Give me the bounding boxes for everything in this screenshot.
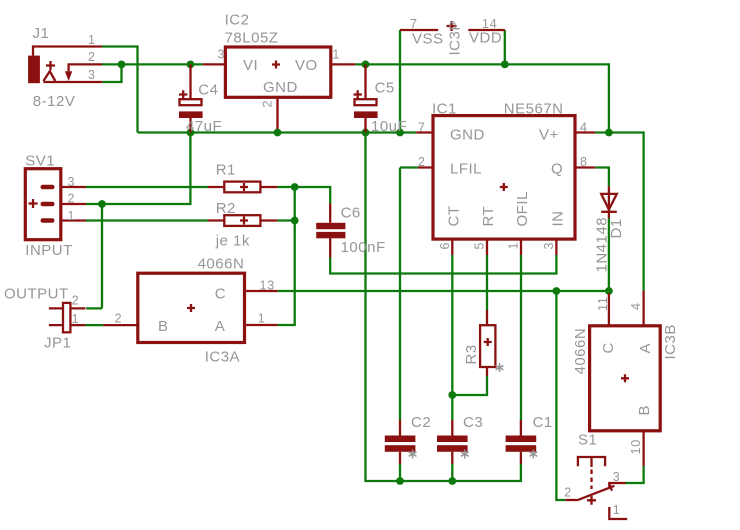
wire SV1.3 to R1 [86,186,208,188]
wire V+ of IC1 to IC3B pin4 [595,133,643,291]
power symbol IC3P VDD pin 14 [468,29,505,31]
junction node V+ [605,129,613,137]
svg-text:IC2: IC2 [225,12,250,29]
wire R1 right to C6 top [277,187,330,204]
wire GND rail y=132.5 [138,131,417,133]
junction node J1.2/J1.3 [118,61,126,69]
svg-text:C4: C4 [198,82,218,99]
svg-text:IC3B: IC3B [662,324,679,359]
wire net J1.3 up to J1.2 [102,64,121,82]
value star of C1 [529,450,537,459]
svg-text:R1: R1 [216,162,236,179]
connector SV1 [25,169,86,240]
junction node VDD [501,61,509,69]
svg-text:S1: S1 [578,432,597,449]
junction node D1/IC3B pin11 [605,287,613,295]
svg-text:4: 4 [580,121,588,135]
wire net VIN+ J1.1 down to GND rail [102,47,138,133]
svg-text:2: 2 [115,312,123,326]
power symbol IC3P VSS pin 7 [400,29,438,31]
wire Q pin to D1 anode [595,168,609,187]
svg-text:IC1: IC1 [432,101,457,118]
svg-text:LFIL: LFIL [450,161,482,178]
junction node VSS on rail [396,129,404,137]
svg-text:IC3A: IC3A [205,349,240,366]
wire RT down to R3 [486,255,488,310]
wire OFIL down to C1 [520,255,522,420]
wire SV1.1 to R2 [86,219,208,221]
wire LFIL pin left [400,166,418,168]
svg-text:IN: IN [549,211,566,227]
svg-text:1: 1 [332,48,340,62]
wire SV1.2 right and up to GND rail [86,133,190,205]
svg-text:C3: C3 [463,414,483,431]
svg-text:2: 2 [72,294,80,308]
wire net J1.2 to IC2 VI [102,63,203,65]
svg-text:GND: GND [263,79,298,96]
svg-text:OFIL: OFIL [514,191,531,226]
svg-text:B: B [158,318,169,335]
svg-text:C: C [215,286,226,303]
svg-text:3: 3 [218,48,226,62]
junction node SV1.2/JP1.2 [98,200,106,208]
svg-text:C1: C1 [533,414,553,431]
svg-text:C6: C6 [341,205,361,222]
svg-text:B: B [636,405,653,416]
svg-text:INPUT: INPUT [25,242,73,259]
wire S1 pin3 to IC3B pin10 [626,466,644,483]
svg-text:6: 6 [438,242,452,250]
switch S1 [565,457,627,519]
wire C3 bottom to rail [451,464,453,481]
svg-text:C: C [600,342,617,353]
svg-text:C5: C5 [375,80,395,97]
svg-text:J1: J1 [33,25,50,42]
svg-text:IC3P: IC3P [447,20,464,55]
svg-text:5: 5 [473,242,487,250]
svg-text:1: 1 [88,33,96,47]
svg-text:13: 13 [260,279,276,293]
value star of C2 [409,450,417,459]
svg-text:R2: R2 [216,200,236,217]
svg-text:3: 3 [613,470,621,484]
switch IC3A 4066N box [103,273,277,342]
svg-text:2: 2 [418,155,426,169]
svg-text:1: 1 [507,242,521,250]
svg-text:V+: V+ [539,127,559,144]
svg-text:VDD: VDD [469,30,502,47]
svg-text:10: 10 [629,439,643,455]
capacitor C5 [354,64,378,132]
svg-text:C2: C2 [411,414,431,431]
wire LFIL down to C2 [399,168,401,421]
junction node S1 feed [553,287,561,295]
svg-text:8-12V: 8-12V [33,93,76,110]
svg-text:47uF: 47uF [186,118,222,135]
svg-text:D1: D1 [608,218,625,238]
capacitor C6 [316,204,345,258]
diode D1 1N4148 [601,186,617,218]
svg-text:JP1: JP1 [44,335,71,352]
connector J1 body [28,47,102,84]
power symbol IC3P origin cross [447,21,457,31]
svg-text:4066N: 4066N [198,256,245,273]
svg-text:7: 7 [418,121,426,135]
svg-text:je 1k: je 1k [215,233,250,250]
capacitor C1 [506,420,537,464]
junction node R2 right [291,217,299,225]
wire GND vertical + bottom rail + up to C1 [366,133,521,482]
svg-text:VI: VI [243,57,258,74]
svg-text:1: 1 [613,503,621,517]
wire R2 right to junction [277,219,294,221]
svg-text:1: 1 [258,312,266,326]
wire JP1.1 to IC3A pin2 [85,324,103,326]
svg-text:OUTPUT: OUTPUT [4,286,69,303]
svg-text:A: A [215,318,226,335]
resistor R1 [208,182,277,193]
svg-text:2: 2 [564,486,572,500]
junction node C5 bottom on rail [362,129,370,137]
svg-text:2: 2 [68,192,76,206]
wire D1 cathode down to junction [608,218,610,291]
svg-text:RT: RT [480,206,497,227]
junction node R1 right [291,183,299,191]
svg-text:Q: Q [551,161,563,178]
svg-text:1: 1 [72,312,80,326]
op IC1 NE567N box [416,116,595,255]
svg-text:3: 3 [68,175,76,189]
svg-text:NE567N: NE567N [504,101,564,118]
svg-text:VO: VO [295,57,318,74]
regulator IC2 78L05Z [203,47,355,133]
value star of R3 [496,363,504,372]
svg-text:1: 1 [68,209,76,223]
svg-text:2: 2 [88,50,96,64]
junction node C2 bottom [396,477,404,485]
wire C6 bottom to IC1 IN pin [330,255,556,274]
svg-text:SV1: SV1 [25,153,55,170]
junction node C5 top [362,61,370,69]
wire C2 bottom to rail [399,464,401,481]
svg-text:7: 7 [410,17,418,31]
junction node C4 top [187,61,195,69]
svg-text:VSS: VSS [412,31,444,48]
junction node C4 bottom on GND rail [187,129,195,137]
wire junction down to S1 pin2 [556,291,565,500]
junction node R3 bottom [448,391,456,399]
jumper JP1 [49,303,86,332]
svg-text:A: A [637,343,654,354]
wire CT down to C3 [451,255,453,420]
junction node C3 bottom [448,477,456,485]
capacitor C2 [385,420,416,464]
svg-text:4066N: 4066N [572,328,589,375]
svg-text:4: 4 [629,302,643,310]
wire R3 bottom to CT net [452,376,487,395]
svg-text:3: 3 [88,68,96,82]
svg-text:CT: CT [445,206,462,227]
resistor R2 [208,215,277,226]
wire JP1.2 stub [86,307,102,309]
svg-text:R3: R3 [463,344,480,364]
junction node IC2 GND on rail [274,129,282,137]
svg-text:GND: GND [450,127,485,144]
svg-text:8: 8 [580,155,588,169]
svg-text:3: 3 [542,242,556,250]
resistor R3 [480,310,495,376]
svg-text:2: 2 [261,100,275,108]
svg-text:78L05Z: 78L05Z [225,30,279,47]
capacitor C3 [437,420,468,464]
wire R junction vertical to IC3A pin1 [278,187,295,325]
svg-text:10uF: 10uF [371,118,407,135]
switch IC3B 4066N box [590,291,661,466]
wire +5V net from IC2 VO to right corner down [355,64,609,132]
wire VSS vertical to GND rail [399,30,401,133]
svg-text:11: 11 [596,296,610,311]
capacitor C4 [179,64,203,132]
wire SV1.2 down to JP1.2 [101,204,103,308]
value star of C3 [461,450,469,459]
wire rail IC3A pin13 to D1/IC3B pin11 [278,290,609,292]
wire VDD vertical [504,30,506,64]
svg-text:100nF: 100nF [341,239,386,256]
